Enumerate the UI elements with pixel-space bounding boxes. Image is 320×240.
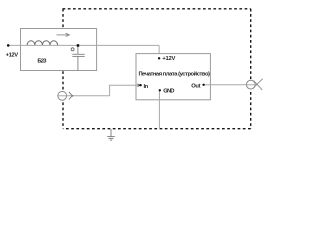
svg-text:Печатная плата (устройство): Печатная плата (устройство) [138,71,210,78]
svg-text:GND: GND [163,89,174,95]
svg-text:+12V: +12V [162,56,175,62]
svg-text:Out: Out [191,83,200,89]
svg-text:+12V: +12V [6,53,19,59]
